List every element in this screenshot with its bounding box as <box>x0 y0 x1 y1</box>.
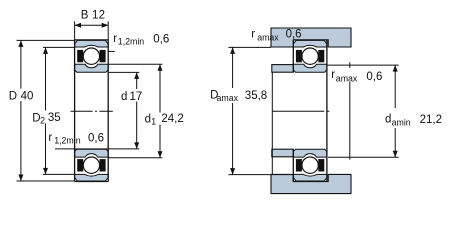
svg-text:35,8: 35,8 <box>245 90 267 102</box>
svg-text:0,6: 0,6 <box>286 29 302 41</box>
svg-text:r: r <box>331 69 335 81</box>
svg-text:d: d <box>385 114 391 126</box>
svg-text:21,2: 21,2 <box>420 114 442 126</box>
svg-text:35: 35 <box>48 112 61 124</box>
svg-text:D: D <box>9 91 17 103</box>
svg-text:r: r <box>113 33 117 45</box>
svg-text:40: 40 <box>21 91 34 103</box>
svg-text:1,2min: 1,2min <box>118 37 145 47</box>
svg-text:0,6: 0,6 <box>153 33 169 45</box>
svg-text:1,2min: 1,2min <box>54 136 81 146</box>
svg-text:amax: amax <box>336 73 358 83</box>
svg-text:1: 1 <box>151 116 156 126</box>
svg-text:r: r <box>48 132 52 144</box>
svg-text:2: 2 <box>40 116 45 126</box>
svg-text:r: r <box>251 29 255 41</box>
svg-text:amax: amax <box>217 93 239 103</box>
svg-text:d: d <box>121 91 127 103</box>
svg-text:0,6: 0,6 <box>88 132 104 144</box>
svg-text:d: d <box>145 113 151 125</box>
svg-text:24,2: 24,2 <box>161 113 183 125</box>
svg-text:0,6: 0,6 <box>366 71 382 83</box>
svg-text:amin: amin <box>392 118 411 128</box>
svg-text:amax: amax <box>257 33 279 43</box>
svg-text:B 12: B 12 <box>81 9 105 21</box>
svg-text:17: 17 <box>130 91 143 103</box>
